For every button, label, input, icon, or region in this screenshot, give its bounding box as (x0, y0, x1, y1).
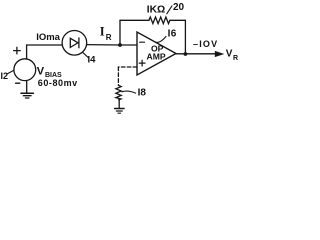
svg-text:IKΩ: IKΩ (147, 5, 165, 16)
feedback wire top rail left (120, 19, 149, 21)
wire photodiode to op-amp inverting input (87, 44, 137, 46)
label 18 (122, 88, 146, 99)
label VR (226, 49, 238, 63)
node junction IR (118, 43, 122, 47)
output junction node (184, 52, 188, 56)
svg-text:I4: I4 (88, 54, 97, 65)
svg-text:AMP: AMP (147, 52, 166, 62)
label VBIAS (37, 66, 62, 80)
wire source to photodiode (27, 45, 62, 59)
ground (source) (21, 81, 33, 98)
photodiode circle 14 (62, 31, 87, 56)
dashed wire op-amp plus input horizontal (118, 66, 136, 68)
- polarity mark (16, 82, 20, 84)
+ polarity mark (14, 47, 21, 54)
svg-text:R: R (233, 55, 238, 62)
op-amp triangle (16) (137, 32, 176, 75)
op-amp OP AMP text (147, 44, 166, 62)
svg-text:R: R (106, 33, 112, 42)
resistor 18 (116, 85, 121, 100)
resistor 1K ohm (20) (149, 17, 170, 24)
dashed wire vertical to resistor 18 (117, 67, 119, 86)
photodiode symbol (70, 38, 79, 48)
output wire with arrowhead (176, 51, 224, 57)
feedback wire right vertical (184, 20, 186, 54)
svg-text:20: 20 (173, 2, 185, 13)
label 14 (83, 52, 97, 65)
svg-text:V: V (226, 49, 233, 60)
label IR (100, 24, 112, 42)
label 12 (1, 70, 14, 81)
svg-text:–IOV: –IOV (193, 39, 218, 49)
feedback wire left vertical (119, 20, 121, 45)
svg-text:IOma: IOma (36, 32, 60, 43)
svg-text:V: V (37, 66, 45, 78)
svg-text:I: I (100, 24, 105, 38)
label 20 (167, 2, 185, 14)
label 16 (155, 28, 176, 42)
ground (18) (115, 100, 124, 113)
svg-text:I2: I2 (1, 71, 9, 81)
feedback wire top rail right (170, 19, 186, 21)
op-amp plus input mark (139, 60, 145, 66)
svg-text:I6: I6 (168, 28, 177, 39)
op-amp minus input mark (140, 41, 145, 43)
voltage source circle (12) (14, 59, 36, 81)
svg-text:60-80mv: 60-80mv (38, 78, 78, 88)
svg-text:I8: I8 (138, 88, 147, 99)
